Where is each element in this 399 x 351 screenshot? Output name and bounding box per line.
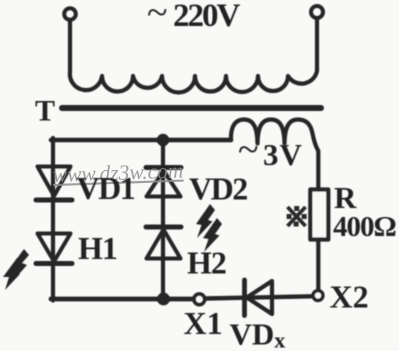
terminal (top-right, 220V input): [311, 6, 323, 18]
svg-text:VD1: VD1: [77, 170, 135, 206]
transformer T primary winding: [70, 19, 317, 93]
junction node (bottom, H2 branch to X1): [157, 293, 170, 306]
junction node (top, secondary to VD2 branch): [157, 134, 169, 146]
diode VD1 cathode bar: [36, 198, 72, 203]
wire top horizontal (secondary to branches): [51, 138, 231, 143]
H1 light emission arrows (lightning bolts): [3, 249, 29, 290]
transformer T core: [62, 105, 321, 111]
resistor R body: [310, 190, 328, 240]
svg-text:VD2: VD2: [189, 171, 247, 207]
svg-text:T: T: [35, 95, 55, 128]
svg-text:X1: X1: [184, 305, 223, 341]
svg-text:R: R: [334, 180, 357, 215]
reference mark ※ next to R: [287, 206, 307, 227]
wire left branch vertical: [51, 138, 55, 301]
svg-text:3V: 3V: [263, 137, 303, 172]
svg-text:X2: X2: [330, 279, 369, 315]
LED H2 triangle: [147, 230, 181, 259]
svg-text:~: ~: [238, 129, 259, 171]
terminal X1 circle: [194, 294, 205, 305]
svg-text:H1: H1: [78, 230, 117, 266]
svg-text:400Ω: 400Ω: [333, 211, 396, 243]
svg-text:H2: H2: [187, 245, 226, 281]
diode VD2 cathode bar: [146, 165, 181, 170]
H2 light emission arrows (lightning bolts): [196, 204, 222, 252]
diode VD1 triangle: [38, 167, 71, 197]
terminal X2 circle: [313, 291, 323, 301]
diode VD2 triangle: [147, 171, 181, 197]
terminal (top-left, 220V input): [64, 8, 76, 20]
transformer T secondary winding: [166, 120, 318, 190]
diode VDx triangle: [247, 281, 272, 314]
svg-text:~: ~: [147, 0, 168, 34]
diode VDx cathode bar: [242, 280, 247, 316]
wire right branch vertical (resistor leads): [316, 240, 320, 290]
LED H2 cathode bar: [146, 225, 181, 230]
wire middle branch vertical: [161, 140, 165, 300]
LED H1 triangle: [38, 234, 71, 262]
wire bottom horizontal (left to X1): [51, 297, 193, 302]
LED H1 cathode bar: [36, 261, 72, 266]
svg-text:220V: 220V: [173, 0, 241, 34]
wire bottom horizontal (X1 to X2): [205, 296, 311, 298]
